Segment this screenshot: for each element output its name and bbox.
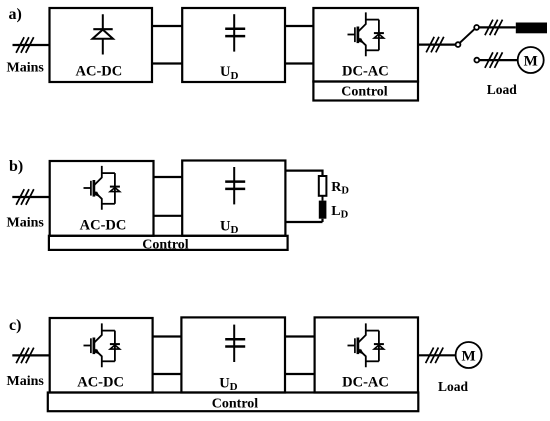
transistor IGBT c1	[84, 323, 120, 367]
block U_D c	[181, 317, 285, 392]
block AC-DC c	[50, 318, 153, 393]
svg-text:LD: LD	[331, 204, 348, 221]
wire dc bus c2	[285, 337, 315, 375]
mains slashes c	[16, 348, 34, 364]
block AC-DC a	[50, 8, 153, 82]
svg-text:Control: Control	[142, 237, 189, 252]
motor M a	[518, 47, 544, 73]
capacitor C1	[225, 14, 245, 51]
svg-text:Mains: Mains	[7, 215, 45, 230]
diode D1	[93, 14, 114, 54]
svg-text:UD: UD	[220, 218, 238, 236]
svg-text:c): c)	[9, 317, 21, 334]
block U_D b	[182, 161, 285, 236]
svg-text:UD: UD	[219, 375, 237, 393]
svg-text:AC-DC: AC-DC	[76, 64, 123, 80]
block DC-AC a	[313, 8, 418, 82]
wire brake top b	[285, 171, 322, 176]
wire brake bottom b	[285, 219, 322, 222]
control box b	[49, 236, 288, 250]
wire dc bus a2	[285, 26, 313, 64]
wire output a	[418, 43, 456, 45]
brake resistor (black)	[516, 23, 547, 34]
svg-text:a): a)	[9, 6, 22, 23]
brake branch slashes	[485, 20, 503, 36]
transistor IGBT c2	[348, 323, 384, 367]
svg-text:b): b)	[9, 158, 23, 175]
svg-text:DC-AC: DC-AC	[342, 64, 389, 80]
svg-text:Mains: Mains	[7, 60, 45, 75]
switch pole	[456, 42, 461, 47]
inductor L_D (black)	[319, 201, 327, 219]
svg-text:Control: Control	[212, 396, 259, 411]
output slashes c	[426, 348, 444, 364]
svg-text:RD: RD	[331, 180, 349, 197]
switch contact top	[474, 25, 479, 30]
svg-text:DC-AC: DC-AC	[342, 375, 389, 391]
svg-text:Load: Load	[487, 82, 518, 97]
wire dc bus a1	[152, 26, 182, 64]
svg-text:Load: Load	[438, 379, 469, 394]
wire mains c	[12, 354, 49, 356]
mains slashes a	[16, 37, 34, 53]
transistor IGBT a	[348, 12, 384, 56]
svg-text:UD: UD	[220, 64, 238, 82]
wire dc bus c1	[153, 337, 182, 375]
wire R to L	[322, 196, 324, 201]
wire dc bus b	[154, 177, 183, 216]
block U_D a	[182, 8, 285, 82]
svg-text:Control: Control	[341, 84, 388, 99]
wire mains a	[13, 44, 50, 46]
block DC-AC c	[315, 317, 418, 392]
svg-text:Mains: Mains	[7, 374, 45, 389]
block AC-DC b	[50, 161, 154, 236]
motor branch slashes a	[485, 52, 503, 68]
wire mains b	[12, 196, 49, 198]
motor M c	[456, 342, 482, 368]
switch contact bottom	[474, 58, 479, 63]
wire motor branch a	[479, 59, 518, 61]
wire brake branch	[479, 26, 516, 28]
control box c	[48, 393, 419, 412]
wire output c	[418, 354, 456, 356]
resistor R_D	[319, 176, 327, 196]
svg-text:AC-DC: AC-DC	[80, 218, 127, 234]
capacitor C2	[225, 167, 245, 204]
capacitor C3	[225, 325, 245, 362]
svg-text:AC-DC: AC-DC	[77, 375, 124, 391]
mains slashes b	[16, 189, 34, 205]
transistor IGBT b	[84, 166, 120, 210]
switch blade	[460, 29, 475, 43]
output slashes a	[426, 37, 444, 53]
control box a	[313, 82, 418, 101]
